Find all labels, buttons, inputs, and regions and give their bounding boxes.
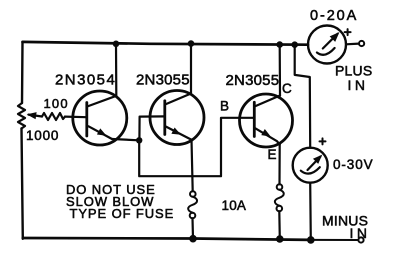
- wire Q2 collector to top rail: [190, 44, 192, 94]
- svg-text:0-20A: 0-20A: [310, 8, 358, 24]
- junction dot Q2 collector at rail: [188, 40, 195, 47]
- junction dot Q1 collector at rail: [113, 41, 120, 48]
- wire ammeter to PLUS terminal: [346, 42, 359, 45]
- wire Q3 collector to top rail: [279, 45, 281, 96]
- plus mark voltmeter: [320, 138, 326, 144]
- svg-text:IN: IN: [350, 225, 371, 241]
- fuse F1: [188, 191, 197, 218]
- wire top rail to voltmeter: [295, 45, 311, 148]
- junction dot F2 at bottom rail: [276, 235, 284, 243]
- wire voltmeter to bottom rail: [309, 183, 312, 240]
- svg-text:0-30V: 0-30V: [333, 157, 374, 172]
- wire resistor to Q1 base: [65, 115, 87, 118]
- transistor Q1 2N3054: [73, 91, 127, 145]
- wire Q1 collector to top rail: [115, 44, 118, 96]
- svg-text:E: E: [268, 147, 277, 162]
- svg-text:2N3055: 2N3055: [136, 72, 190, 89]
- potentiometer wiper arrow: [29, 115, 43, 117]
- wire bottom rail: [23, 238, 311, 240]
- wire left vertical (potentiometer to bottom rail): [22, 129, 23, 239]
- ammeter M1 0-20A: [308, 26, 346, 64]
- junction dot F1 at bottom rail: [189, 235, 197, 243]
- wire top rail: [23, 42, 309, 45]
- svg-text:100: 100: [44, 96, 69, 111]
- svg-text:2N3055: 2N3055: [226, 72, 280, 89]
- wire bottom rail to MINUS terminal: [311, 239, 358, 241]
- svg-text:10A: 10A: [222, 198, 247, 213]
- transistor Q2 2N3055: [150, 91, 204, 145]
- junction dot voltmeter branch at top rail: [291, 41, 298, 48]
- transistor Q3 2N3055: [240, 94, 293, 147]
- voltmeter M2 0-30V: [293, 148, 328, 183]
- wire Q1 emitter to node: [112, 139, 139, 140]
- svg-text:1000: 1000: [26, 128, 59, 143]
- svg-text:TYPE OF FUSE: TYPE OF FUSE: [70, 206, 175, 221]
- resistor 100: [42, 113, 65, 120]
- svg-text:C: C: [282, 81, 292, 96]
- wire node down/right/up to Q3 base: [139, 118, 254, 176]
- junction dot Q3 collector at rail: [276, 41, 283, 48]
- terminal MINUS IN (open circle): [358, 237, 363, 242]
- wire fuse F2 to bottom rail: [278, 211, 281, 239]
- svg-text:2N3054: 2N3054: [55, 72, 116, 89]
- wire Q2 emitter down to fuse F1: [192, 140, 193, 192]
- wire node up to Q2 base: [139, 116, 164, 140]
- wire left vertical (top rail to potentiometer): [21, 42, 24, 103]
- terminal PLUS IN (open circle): [359, 41, 364, 46]
- svg-text:IN: IN: [348, 77, 369, 93]
- wire fuse F1 to bottom rail: [191, 218, 194, 239]
- fuse F2: [275, 184, 284, 211]
- junction dot voltmeter at bottom rail: [307, 236, 315, 244]
- node junction dot (Q1 emitter / base bus): [136, 137, 142, 143]
- svg-text:B: B: [220, 99, 229, 114]
- plus mark ammeter: [345, 29, 351, 35]
- wire Q3 emitter down to fuse F2: [278, 145, 280, 185]
- potentiometer 1000: [18, 103, 25, 129]
